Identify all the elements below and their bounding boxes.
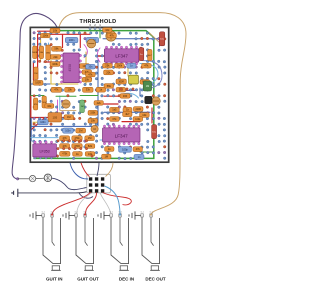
resistor R34 100k <box>50 62 60 67</box>
board pad holes <box>33 32 167 160</box>
LED LED1 <box>44 174 52 182</box>
svg-text:0.1: 0.1 <box>51 211 55 213</box>
wire blue row top-right <box>103 39 160 46</box>
wire cyan seg C <box>100 139 116 141</box>
svg-text:10k: 10k <box>85 78 90 82</box>
node red pads row <box>120 88 122 90</box>
resistor R53 47k <box>86 72 96 77</box>
resistor R37 100R <box>33 80 43 85</box>
wire magenta curl <box>84 45 87 58</box>
resistor R26 1k5 <box>110 107 120 112</box>
resistor R11 47k <box>107 33 116 38</box>
resistor R31 1M <box>102 154 111 159</box>
svg-text:10k: 10k <box>91 119 96 123</box>
wire blue seg A <box>31 84 140 96</box>
svg-text:DEC OUT: DEC OUT <box>145 276 166 281</box>
wire cyan vertical <box>48 43 50 61</box>
wire red loop top-left <box>38 31 90 79</box>
wire SW1 red stub right <box>103 193 132 205</box>
jack J3 DEC IN <box>98 211 134 281</box>
wire blue left edge <box>30 118 32 141</box>
resistor R25 470k <box>60 151 70 156</box>
wire SW1 to GUIT OUT tip (red) <box>85 193 96 215</box>
resistor R12 25k <box>103 63 113 68</box>
svg-text:1M: 1M <box>34 73 37 75</box>
capacitor C11 elec vertical <box>152 125 157 139</box>
wire board to SW1 c (dark) <box>97 163 99 176</box>
resistor R5 1M vertical <box>34 67 38 80</box>
svg-text:56k: 56k <box>54 47 59 51</box>
wire cyan curl bottom <box>120 93 139 98</box>
svg-text:25k: 25k <box>105 64 110 68</box>
resistor R29 1k <box>123 107 132 112</box>
wire blue row mid-left <box>31 125 96 127</box>
wire magenta vertical <box>57 100 59 121</box>
svg-text:37k: 37k <box>112 117 117 121</box>
resistor R44 680k <box>140 80 150 85</box>
resistor R56 1k <box>73 152 83 157</box>
resistor R50 47k <box>133 147 142 152</box>
wire cyan curl right <box>140 64 158 85</box>
wire board to SW1 d (tan) <box>106 163 114 177</box>
resistor R49 220R <box>133 107 143 112</box>
svg-text:220R: 220R <box>135 109 141 111</box>
svg-text:47k: 47k <box>88 72 93 76</box>
wire blue vertical center <box>97 60 99 126</box>
capacitor C12 100p <box>119 147 132 153</box>
svg-text:GUIT OUT: GUIT OUT <box>77 276 99 281</box>
resistor R52 10k <box>88 118 98 123</box>
svg-text:1M: 1M <box>81 106 84 108</box>
resistor R55 330 <box>120 94 130 99</box>
svg-text:100k: 100k <box>42 34 48 38</box>
wire battery to footswitch <box>18 191 89 193</box>
wire magenta curl B <box>97 48 100 62</box>
svg-text:0.1: 0.1 <box>119 211 123 213</box>
resistor R46 10k <box>45 104 54 109</box>
svg-text:1M: 1M <box>79 129 83 133</box>
svg-text:82k: 82k <box>88 144 93 148</box>
svg-text:100n: 100n <box>65 130 71 133</box>
wire board to SW1 b (red) <box>81 163 90 177</box>
wire red row D2 <box>104 104 140 122</box>
resistor R20 47k <box>60 136 70 141</box>
op-amp U4 vertical <box>63 53 79 83</box>
wire W_purple 9V supply (board top, over left side, down to pad) <box>12 14 57 179</box>
trimmer VR2 <box>87 39 96 48</box>
transistor Q1 <box>145 96 152 103</box>
op-amp U3 LF353 <box>33 144 57 157</box>
resistor R7 10k <box>80 64 90 69</box>
LDR LDR1 <box>129 75 139 84</box>
resistor R47 100k <box>133 117 143 122</box>
svg-text:22k: 22k <box>97 101 102 105</box>
jack J4 DEC OUT <box>129 211 166 281</box>
battery BT1 9V <box>11 189 18 197</box>
wire loop below SW1 (dark blue) <box>79 193 93 198</box>
resistor R51 330k <box>88 110 98 115</box>
IC pin pads <box>34 46 140 159</box>
svg-text:22k: 22k <box>53 55 58 59</box>
svg-text:0.1: 0.1 <box>75 211 79 213</box>
wire pad to D1 <box>18 178 29 180</box>
capacitor C7 elec vertical <box>139 48 144 61</box>
wire cyan seg A2 <box>59 96 61 110</box>
svg-text:20k: 20k <box>106 70 111 74</box>
svg-text:100R: 100R <box>35 83 41 85</box>
resistor R36 10k <box>82 77 92 82</box>
svg-text:47k: 47k <box>54 88 59 92</box>
svg-text:100n: 100n <box>69 38 75 42</box>
resistor R57 10k <box>85 152 95 157</box>
svg-text:1M: 1M <box>88 136 92 140</box>
wire green stub B <box>56 31 153 152</box>
resistor R43 2k2 <box>116 87 126 92</box>
wire red seg right of IC1 <box>96 48 141 61</box>
resistor R4 2M2 vertical <box>46 45 51 60</box>
resistor R40 47k <box>142 63 152 68</box>
svg-text:LF353: LF353 <box>39 150 49 154</box>
jack J2 GUIT OUT <box>63 211 99 281</box>
resistor R3 560R vertical <box>32 46 38 59</box>
resistor R22 1M <box>85 136 95 141</box>
resistor R8 47k <box>51 87 62 92</box>
svg-text:THRESHOLD: THRESHOLD <box>80 19 117 25</box>
resistor R33 22k <box>51 55 61 60</box>
resistor R13 100k <box>115 63 125 68</box>
resistor R54 green vert <box>143 81 151 91</box>
svg-text:47k: 47k <box>136 147 141 151</box>
resistor R30 1k <box>105 147 114 152</box>
capacitor C14 1n <box>134 154 144 159</box>
svg-text:10k: 10k <box>47 104 52 108</box>
svg-text:47k: 47k <box>110 33 115 37</box>
svg-text:0.1: 0.1 <box>42 211 46 213</box>
svg-text:0.1: 0.1 <box>141 211 145 213</box>
svg-text:0.1: 0.1 <box>84 211 88 213</box>
resistor R41 4k7 vert <box>148 49 153 60</box>
resistor R2 100k <box>41 33 51 37</box>
resistor R58 82k <box>85 144 95 149</box>
wire yellow seg B <box>86 52 128 84</box>
resistor R21 470k <box>72 136 82 141</box>
resistor R6 56k <box>52 46 62 51</box>
svg-text:1M: 1M <box>67 115 71 119</box>
capacitor C15 10n <box>86 64 96 69</box>
trimmer VR1 <box>106 31 116 41</box>
circuit board outline <box>30 27 168 162</box>
wire SW1 to DEC IN tip (blue) <box>105 186 121 214</box>
capacitor C1 100n <box>65 37 78 42</box>
resistor R17 1M green vert <box>80 100 85 113</box>
capacitor C3 elec <box>62 100 70 108</box>
svg-text:560R: 560R <box>32 52 38 54</box>
resistor R19 1M <box>76 128 86 133</box>
wire board to SW1 a (blue) <box>70 163 88 179</box>
svg-text:100k: 100k <box>135 119 141 121</box>
resistor R28 10k <box>140 113 150 118</box>
resistor R24 470R <box>72 144 82 149</box>
svg-text:100p: 100p <box>122 147 128 151</box>
resistor R32 10k vert <box>39 46 44 59</box>
resistor R16 10k vert <box>42 96 47 108</box>
resistor R10 10k <box>103 28 112 33</box>
svg-text:10k: 10k <box>142 113 147 117</box>
resistor R23 47k <box>60 144 70 149</box>
wire yellow vertical left <box>40 37 42 61</box>
wire SW1 to GUIT IN tip (red) <box>52 192 90 214</box>
resistor R42 56k <box>104 84 114 89</box>
resistor R18 1M <box>64 115 74 120</box>
svg-text:300R: 300R <box>118 81 124 83</box>
resistor R59 22k <box>94 101 103 106</box>
wire cyan row <box>31 137 58 139</box>
wire tan seg C <box>60 109 76 111</box>
svg-text:LF347: LF347 <box>115 54 128 59</box>
wire yellow seg C2 <box>33 121 48 123</box>
svg-text:1M: 1M <box>146 85 149 88</box>
footswitch SW1 3PDT <box>87 174 111 193</box>
svg-text:100n: 100n <box>40 121 46 124</box>
resistor R27 37k <box>110 117 120 122</box>
svg-text:33k: 33k <box>86 88 91 92</box>
resistor R39 1k <box>96 87 106 92</box>
wire red row mid-left <box>31 96 71 130</box>
svg-text:100k: 100k <box>117 64 123 68</box>
svg-text:330k: 330k <box>90 113 96 115</box>
wire SW1 to GUIT OUT sleeve (grey) <box>77 193 92 213</box>
capacitor C2 gain <box>86 37 99 42</box>
resistor R1 10k <box>50 28 60 33</box>
resistor R48 4k7 <box>123 112 132 117</box>
jack J1 GUIT IN <box>30 211 63 281</box>
wire green stubs <box>31 95 98 97</box>
wire red row D1 <box>104 96 152 123</box>
wire W_tan output (board top, over top and right side, to DEC OUT tip) <box>59 13 186 215</box>
svg-text:1M: 1M <box>104 155 108 159</box>
resistor R35 47k <box>82 70 92 75</box>
node junction pads strip <box>57 140 59 142</box>
resistor R15 300R <box>116 79 126 84</box>
wire D1 to LED1 <box>36 177 44 179</box>
svg-text:10k: 10k <box>105 28 110 32</box>
wire ground ring (green) <box>33 31 153 159</box>
capacitor C10 100n <box>63 128 74 133</box>
wire blue row D <box>104 111 150 113</box>
svg-text:10n: 10n <box>88 66 93 69</box>
op-amp U2 LF347 <box>103 128 141 142</box>
svg-text:10k: 10k <box>68 88 73 92</box>
svg-text:330: 330 <box>123 94 128 98</box>
wire yellow vertical center <box>51 60 78 84</box>
diode D1 <box>29 175 35 181</box>
svg-text:100k: 100k <box>52 62 58 66</box>
node supply pad <box>16 178 19 181</box>
svg-text:10k: 10k <box>53 29 58 33</box>
svg-text:GUIT IN: GUIT IN <box>46 276 63 281</box>
capacitor C4 elec <box>91 125 98 132</box>
resistor R38 10k <box>65 87 75 92</box>
svg-text:470k: 470k <box>62 154 68 156</box>
op-amp U1 LF347 <box>104 49 138 62</box>
svg-text:56k: 56k <box>107 84 112 88</box>
wire purple stub bottom <box>120 90 135 92</box>
svg-text:47k: 47k <box>144 64 149 68</box>
resistor R45 47k vert <box>33 98 38 110</box>
wire SW1 to DEC IN sleeve (grey) <box>100 193 111 213</box>
capacitor C6 elec vertical <box>159 32 164 46</box>
svg-text:105: 105 <box>52 115 57 119</box>
svg-text:1k5: 1k5 <box>112 108 117 112</box>
node pot lugs 3 2 1 <box>89 23 101 30</box>
resistor R9 33k <box>83 87 94 92</box>
svg-text:DEC IN: DEC IN <box>119 276 134 281</box>
capacitor C13 100n <box>38 120 49 125</box>
capacitor C8 1n <box>127 63 136 68</box>
wire red seg A <box>33 62 60 80</box>
svg-text:4558: 4558 <box>68 64 72 72</box>
capacitor C5 elec <box>152 97 160 105</box>
svg-text:0.1: 0.1 <box>110 211 114 213</box>
svg-text:4k7: 4k7 <box>125 112 130 116</box>
wire LED1 to footswitch <box>52 178 88 189</box>
wire blue curl right outer <box>142 61 162 89</box>
svg-text:LF347: LF347 <box>115 133 128 138</box>
capacitor C9 box <box>48 113 62 122</box>
wire tan diag top-right <box>149 33 160 44</box>
resistor R14 20k <box>104 70 114 75</box>
